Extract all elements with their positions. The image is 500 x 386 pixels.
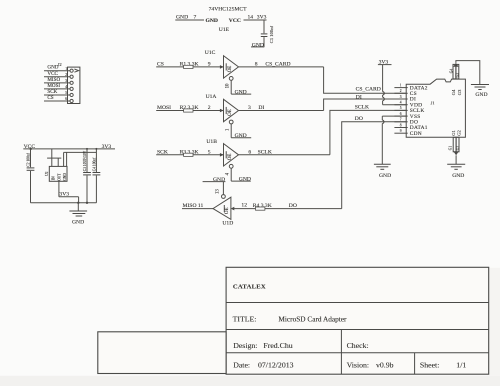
svg-text:OUT: OUT: [57, 173, 61, 181]
svg-text:GND: GND: [475, 92, 487, 98]
svg-text:9: 9: [400, 129, 402, 133]
svg-text:GND: GND: [72, 220, 84, 226]
pin 5 SCLK: [394, 106, 424, 114]
wire GND rail: [31, 202, 97, 204]
svg-text:U1C: U1C: [205, 50, 216, 56]
svg-text:6: 6: [248, 149, 251, 155]
svg-text:Sheet:: Sheet:: [420, 361, 440, 370]
svg-text:1/1: 1/1: [456, 361, 466, 370]
pin 7 DO: [394, 118, 418, 126]
svg-text:8: 8: [255, 61, 258, 67]
svg-text:VCC: VCC: [229, 18, 241, 24]
svg-text:CS_CARD: CS_CARD: [265, 61, 290, 67]
svg-text:U1B: U1B: [206, 139, 217, 145]
wire hop at CS: [383, 92, 385, 95]
node VCC (J2 pin2): [44, 71, 73, 79]
ground: [69, 203, 87, 226]
svg-text:DO: DO: [355, 116, 363, 122]
pin 8 DATA1: [394, 123, 427, 131]
svg-text:GND: GND: [235, 89, 247, 95]
svg-text:GND: GND: [63, 173, 67, 181]
svg-text:GND: GND: [213, 177, 225, 183]
svg-text:C1 100nf: C1 100nf: [269, 26, 274, 44]
svg-text:6: 6: [65, 97, 67, 101]
svg-text:3V3: 3V3: [102, 144, 112, 150]
svg-text:G4: G4: [449, 69, 453, 74]
svg-text:5: 5: [208, 149, 211, 155]
wire DI net: [324, 99, 406, 111]
wire hop at DI: [383, 97, 385, 100]
frame extension box: [98, 332, 226, 374]
pads G1 G2 (bottom): [449, 129, 462, 164]
svg-text:OE: OE: [228, 154, 233, 161]
svg-text:2: 2: [400, 89, 402, 93]
resistor R4: [256, 207, 265, 210]
ground (G4/G3): [471, 85, 489, 98]
svg-text:3: 3: [65, 79, 67, 83]
buffer U1B: [156, 139, 330, 183]
svg-text:GND: GND: [239, 176, 251, 182]
svg-text:CATALEX: CATALEX: [233, 284, 266, 291]
connector J1 (microSD socket): [406, 79, 465, 137]
svg-text:12: 12: [241, 203, 247, 209]
pin 6 VSS: [394, 112, 420, 120]
pin 1 DATA2: [394, 83, 427, 91]
wire to ground: [455, 155, 457, 164]
ground (G1/G2): [447, 164, 465, 179]
pin 1 marker: [74, 69, 78, 72]
svg-text:GND: GND: [206, 18, 218, 24]
svg-text:J1: J1: [431, 100, 436, 105]
svg-text:C2 100nf: C2 100nf: [27, 152, 31, 166]
svg-text:3V3: 3V3: [59, 191, 69, 197]
svg-text:Date:: Date:: [233, 361, 250, 370]
capacitor C2 100nf: [27, 149, 35, 203]
title block: [98, 267, 489, 374]
wire to ground: [456, 61, 480, 85]
svg-text:CS_CARD: CS_CARD: [356, 87, 381, 93]
connector J2: [58, 62, 80, 103]
node MISO (J2 pin3): [44, 77, 73, 85]
svg-text:DI: DI: [258, 105, 264, 111]
svg-text:DI: DI: [356, 94, 362, 100]
svg-text:3: 3: [248, 105, 251, 111]
svg-text:Vision:: Vision:: [347, 361, 370, 370]
svg-text:G2: G2: [457, 129, 462, 135]
svg-text:IN: IN: [52, 176, 56, 180]
ground (VSS): [374, 164, 391, 179]
svg-text:13: 13: [216, 189, 221, 194]
svg-text:OE: OE: [228, 66, 233, 73]
svg-text:G1: G1: [451, 129, 456, 135]
node MOSI (J2 pin4): [44, 83, 73, 91]
resistor R1: [184, 65, 193, 68]
svg-text:G2: G2: [456, 146, 460, 151]
pin 2 CS: [394, 89, 416, 97]
svg-text:OE: OE: [225, 207, 230, 214]
svg-text:GND: GND: [235, 133, 247, 139]
svg-text:5: 5: [400, 106, 402, 110]
svg-text:C4 100nf: C4 100nf: [92, 157, 96, 171]
svg-text:2: 2: [208, 105, 211, 111]
node GND (J2 pin1): [44, 65, 73, 73]
svg-text:OE: OE: [228, 109, 233, 116]
wire SCLK net: [330, 110, 406, 154]
svg-text:5: 5: [65, 91, 67, 95]
svg-text:CDN: CDN: [410, 131, 422, 137]
svg-text:C3 10UF/10V: C3 10UF/10V: [83, 150, 87, 171]
svg-text:G4: G4: [451, 89, 456, 95]
buffer U1C: [156, 50, 323, 96]
svg-text:SCLK: SCLK: [258, 149, 272, 155]
svg-text:Design:: Design:: [233, 341, 257, 350]
svg-text:U2: U2: [45, 171, 49, 176]
capacitor C4 100nf: [92, 148, 100, 203]
node 3V3 out: [58, 181, 60, 197]
wire DO net: [342, 122, 406, 209]
node CS (J2 pin6): [44, 95, 73, 103]
capacitor C1 100nf: [263, 20, 265, 33]
svg-text:GND: GND: [452, 173, 464, 179]
svg-text:CS: CS: [47, 95, 53, 101]
svg-text:G3: G3: [457, 89, 462, 95]
svg-text:6: 6: [400, 112, 402, 116]
wire hop at DO: [382, 120, 384, 123]
svg-text:DO: DO: [289, 203, 297, 209]
pin 3 DI: [394, 95, 416, 103]
svg-text:GND: GND: [252, 43, 264, 49]
buffer U1A: [156, 94, 323, 139]
svg-text:4: 4: [65, 85, 67, 89]
regulator U2: [45, 149, 96, 203]
svg-text:2: 2: [65, 73, 67, 77]
svg-text:v0.9b: v0.9b: [376, 361, 394, 370]
svg-text:74VHC125MCT: 74VHC125MCT: [209, 6, 247, 12]
buffer U1D (mirrored): [182, 177, 342, 226]
svg-text:MicroSD Card Adapter: MicroSD Card Adapter: [278, 315, 347, 324]
svg-text:8: 8: [400, 123, 402, 127]
svg-text:TITLE:: TITLE:: [233, 314, 257, 323]
svg-text:Check:: Check:: [347, 341, 369, 350]
pin 4 VDD: [394, 101, 422, 109]
svg-text:G3: G3: [456, 73, 460, 78]
wire: [244, 19, 267, 21]
pads G4 G3 (top): [449, 61, 480, 96]
capacitor C3 10UF/10V: [83, 148, 91, 203]
svg-text:1: 1: [65, 67, 67, 71]
svg-text:3: 3: [400, 95, 402, 99]
svg-text:Fred.Chu: Fred.Chu: [263, 341, 292, 350]
svg-text:U1A: U1A: [206, 94, 217, 100]
svg-text:U1D: U1D: [222, 220, 233, 226]
node 3V3 (J1): [378, 60, 406, 105]
node VSS to ground: [382, 116, 406, 164]
svg-text:4: 4: [400, 101, 402, 105]
svg-text:7: 7: [400, 118, 402, 122]
node VCC rail: [23, 144, 115, 150]
svg-text:10: 10: [226, 83, 231, 88]
svg-text:1: 1: [400, 83, 402, 87]
pin 9 CDN: [394, 129, 422, 137]
svg-text:07/12/2013: 07/12/2013: [258, 361, 294, 370]
svg-text:9: 9: [208, 61, 211, 67]
node SCK (J2 pin5): [44, 89, 73, 97]
svg-text:SCLK: SCLK: [355, 105, 369, 111]
resistor R2: [184, 109, 193, 112]
svg-text:GND: GND: [379, 173, 391, 179]
wire CS_CARD net: [324, 67, 406, 93]
resistor R3: [184, 153, 193, 156]
svg-text:U1E: U1E: [219, 27, 230, 33]
wire: [175, 19, 204, 21]
svg-text:G1: G1: [449, 146, 453, 151]
